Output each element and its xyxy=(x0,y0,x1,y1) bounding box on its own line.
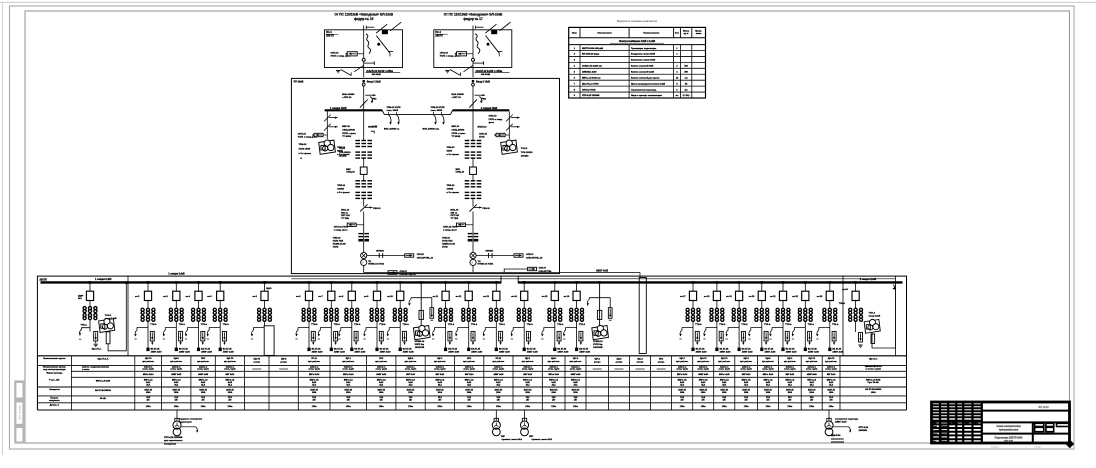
svg-text:ОПН-10: ОПН-10 xyxy=(440,52,449,54)
svg-text:НТМИ-10 УХЛ2: НТМИ-10 УХЛ2 xyxy=(368,264,384,266)
transformer ТСН-1 xyxy=(319,140,336,154)
svg-text:НТМИ-10 УХЛ2: НТМИ-10 УХЛ2 xyxy=(478,264,494,266)
svg-text:кВт: кВт xyxy=(723,400,726,402)
TSN-1 cell partition xyxy=(127,276,129,356)
svg-text:Докум.: Докум. xyxy=(941,426,948,428)
svg-text:ЩС-3: ЩС-3 xyxy=(573,358,579,360)
svg-text:100А: 100А xyxy=(744,391,749,394)
svg-text:100А: 100А xyxy=(174,391,179,394)
svg-text:яч.16: яч.16 xyxy=(564,296,570,298)
disconnect diagonal 2 xyxy=(469,99,477,107)
svg-text:яч.3: яч.3 xyxy=(163,296,168,298)
svg-text:5х16: 5х16 xyxy=(496,382,500,384)
svg-text:ТТИ-А: ТТИ-А xyxy=(448,323,455,326)
svg-text:УХЛ2 3ф: УХЛ2 3ф xyxy=(593,343,602,346)
svg-text:ЯУО: ЯУО xyxy=(659,359,664,361)
svg-text:Ввод-1 10кВ: Ввод-1 10кВ xyxy=(367,82,381,84)
svg-text:1000/5: 1000/5 xyxy=(337,188,344,190)
svg-text:яч.18: яч.18 xyxy=(704,296,710,298)
svg-text:Докум.: Докум. xyxy=(941,441,948,443)
data table grid xyxy=(37,355,906,357)
svg-text:5х16: 5х16 xyxy=(552,382,556,384)
svg-text:1 секция 0,4кВ: 1 секция 0,4кВ xyxy=(168,272,185,275)
svg-text:160А: 160А xyxy=(871,391,876,394)
svg-text:АВВГ 4х50: АВВГ 4х50 xyxy=(786,351,798,354)
svg-text:мощность: мощность xyxy=(49,400,60,402)
svg-text:100А: 100А xyxy=(573,391,578,394)
svg-text:ВА 57-35: ВА 57-35 xyxy=(527,347,537,350)
svg-text:лотке, трубе: лотке, трубе xyxy=(522,369,534,371)
svg-text:РВЗ-10: РВЗ-10 xyxy=(373,208,381,210)
svg-text:ВВУ: ВВУ xyxy=(346,169,351,171)
svg-text:щит раб.осв.: щит раб.осв. xyxy=(762,361,774,363)
svg-text:ЩАО: ЩАО xyxy=(551,357,556,360)
fuse block 2 xyxy=(491,30,497,34)
svg-text:ТТИ-А: ТТИ-А xyxy=(719,323,726,326)
frame corner diamond xyxy=(1065,440,1074,449)
svg-text:125м: 125м xyxy=(408,406,413,408)
svg-text:ЩР-2: ЩР-2 xyxy=(680,358,686,360)
svg-text:кабель ВВГнг-LS: кабель ВВГнг-LS xyxy=(865,365,882,368)
svg-text:5х16: 5х16 xyxy=(146,382,150,384)
svg-text:125м: 125м xyxy=(346,406,351,408)
feeder bay яч.20 xyxy=(761,281,764,284)
svg-text:ТН: ТН xyxy=(368,261,371,263)
svg-text:лотке, трубе: лотке, трубе xyxy=(375,369,387,371)
svg-text:100А: 100А xyxy=(379,391,384,394)
current transformers lower 1 xyxy=(355,180,360,182)
svg-text:ЩО-70-1-Х УХЛ4: ЩО-70-1-Х УХЛ4 xyxy=(582,82,599,85)
svg-text:40 кВт: 40 кВт xyxy=(100,397,106,400)
svg-text:щит раб.осв.: щит раб.осв. xyxy=(308,361,320,363)
svg-text:УХЛ2 100/5: УХЛ2 100/5 xyxy=(299,149,311,151)
svg-text:резерв: резерв xyxy=(658,361,665,363)
winding squiggle 2 xyxy=(475,34,480,54)
svg-text:кВт: кВт xyxy=(745,400,748,402)
bus jog at section break xyxy=(500,276,502,283)
svg-text:АВВГ 4х50: АВВГ 4х50 xyxy=(696,351,708,354)
LV busbar section 1 xyxy=(41,281,502,283)
svg-text:ВВУ-10: ВВУ-10 xyxy=(452,126,460,128)
svg-text:Наименование: Наименование xyxy=(643,33,660,35)
surge arrester ТСН-1 xyxy=(314,133,323,136)
svg-text:ВВГнг-LS 5х50: ВВГнг-LS 5х50 xyxy=(96,380,111,382)
svg-text:1 секция 10кВ: 1 секция 10кВ xyxy=(330,107,347,110)
auxiliary wire to sections xyxy=(364,272,640,274)
svg-text:яч.15: яч.15 xyxy=(542,296,548,298)
svg-text:ТСН-1: ТСН-1 xyxy=(105,315,112,317)
svg-text:Изм.: Изм. xyxy=(932,423,937,425)
svg-text:АВВГ 4х50: АВВГ 4х50 xyxy=(808,351,820,354)
feeder bay яч.18 xyxy=(716,281,719,284)
svg-text:резерв: резерв xyxy=(616,361,623,363)
branch fuse arrester 2 xyxy=(476,255,514,257)
svg-text:АВВГ 4х50: АВВГ 4х50 xyxy=(380,351,392,354)
svg-text:5х16: 5х16 xyxy=(201,382,205,384)
svg-text:ТТИ-А: ТТИ-А xyxy=(839,302,846,305)
svg-text:ВНА-10/630 зп: ВНА-10/630 зп xyxy=(384,127,400,130)
branch wire section 2 xyxy=(504,269,527,273)
svg-text:ВА 57-35: ВА 57-35 xyxy=(380,347,390,350)
svg-text:фазе: фазе xyxy=(489,121,495,124)
feeder line in cell 2 xyxy=(472,35,474,59)
svg-text:для переносного: для переносного xyxy=(164,440,183,442)
feeder bay яч.3 xyxy=(175,281,178,284)
current transformers upper 1 xyxy=(355,140,360,142)
svg-text:щит раб.осв.: щит раб.осв. xyxy=(676,361,688,363)
svg-text:Электроснабжение 10кВ и 0,4кВ: Электроснабжение 10кВ и 0,4кВ xyxy=(619,40,656,43)
surge arrester lower 1 xyxy=(347,223,356,226)
bay TSN-2 LV input xyxy=(854,281,857,284)
svg-text:2 / 28,1: 2 / 28,1 xyxy=(683,95,691,97)
svg-text:СЭЩ-20/630: СЭЩ-20/630 xyxy=(452,129,466,131)
svg-text:ТТИ-А: ТТИ-А xyxy=(379,323,386,326)
svg-text:5х16: 5х16 xyxy=(829,382,833,384)
svg-text:ВВГнг-LS 5х16 мм: ВВГнг-LS 5х16 мм xyxy=(582,77,601,79)
svg-text:лотке, трубе: лотке, трубе xyxy=(676,369,688,371)
svg-text:ВНА-10: ВНА-10 xyxy=(341,208,350,211)
svg-text:125м: 125м xyxy=(680,406,685,408)
svg-text:яч.23: яч.23 xyxy=(817,296,823,298)
svg-text:щит раб.осв.: щит раб.осв. xyxy=(825,361,837,363)
svg-text:5х16: 5х16 xyxy=(722,382,726,384)
svg-text:5х16: 5х16 xyxy=(680,382,684,384)
transformer ТСН-2 xyxy=(501,140,518,154)
svg-text:АВВГ 4х50: АВВГ 4х50 xyxy=(832,351,844,354)
svg-text:5х16: 5х16 xyxy=(346,382,350,384)
svg-text:ОПН-П: ОПН-П xyxy=(400,271,408,273)
svg-text:УХЛ2 75/5: УХЛ2 75/5 xyxy=(333,241,344,243)
svg-text:РВЗ: РВЗ xyxy=(482,99,487,101)
svg-text:1 секция 0,4кВ: 1 секция 0,4кВ xyxy=(95,278,112,281)
breaker diagonal 2 xyxy=(486,36,500,54)
svg-text:Потреб.: Потреб. xyxy=(50,396,58,399)
svg-text:ТТИ-А: ТТИ-А xyxy=(471,323,478,326)
svg-text:УХЛ2: УХЛ2 xyxy=(442,246,448,248)
svg-text:РВЗ-10: РВЗ-10 xyxy=(483,208,491,210)
svg-text:100А: 100А xyxy=(146,391,151,394)
svg-text:ВА 57-35: ВА 57-35 xyxy=(334,347,344,350)
svg-text:в 3-х фазах: в 3-х фазах xyxy=(337,153,350,156)
svg-text:яч.24: яч.24 xyxy=(842,288,848,291)
svg-text:5х16: 5х16 xyxy=(744,382,748,384)
svg-text:ВВГ 5х10: ВВГ 5х10 xyxy=(742,374,751,376)
svg-text:Докум.: Докум. xyxy=(941,430,948,432)
svg-text:кВт: кВт xyxy=(810,400,813,402)
svg-text:№ докум.: № докум. xyxy=(949,422,958,425)
svg-text:ВА 57-35-340010: ВА 57-35-340010 xyxy=(865,388,882,391)
svg-text:лотке, трубе: лотке, трубе xyxy=(405,369,417,371)
svg-text:ЩР-2: ЩР-2 xyxy=(595,359,601,361)
switch arrows ТСН-1 xyxy=(329,117,338,119)
svg-text:100А: 100А xyxy=(312,391,317,394)
svg-text:принципиальная: принципиальная xyxy=(999,430,1019,432)
svg-text:лотке, трубе: лотке, трубе xyxy=(170,369,182,371)
arrester branch VT bay 2 xyxy=(609,298,611,308)
svg-text:щит раб.осв.: щит раб.осв. xyxy=(548,361,560,363)
svg-text:НАМИ-10-95: НАМИ-10-95 xyxy=(442,242,456,245)
svg-text:шт: шт xyxy=(676,95,679,97)
fuse VT bay 2 xyxy=(597,310,601,319)
svg-text:Лист: Лист xyxy=(932,426,937,428)
disconnect lower 1 xyxy=(360,204,367,211)
svg-text:освещения: освещения xyxy=(164,443,177,445)
svg-text:НТМИ-10: НТМИ-10 xyxy=(593,341,603,343)
svg-text:Пров.: Пров. xyxy=(932,434,938,436)
voltage transformer bay 1 xyxy=(420,281,423,284)
svg-text:125м: 125м xyxy=(829,406,834,408)
feeder bay яч.11 xyxy=(444,281,447,284)
revision grid header band xyxy=(932,420,982,423)
left margin stamp bar xyxy=(14,380,25,443)
svg-text:ТТИ-А: ТТИ-А xyxy=(311,323,318,326)
feeder bay яч.19 xyxy=(738,281,741,284)
svg-text:ОПН-П: ОПН-П xyxy=(539,268,547,270)
svg-text:125м: 125м xyxy=(809,406,814,408)
svg-text:СЭЩ-10: СЭЩ-10 xyxy=(346,172,355,174)
svg-text:лотке, трубе: лотке, трубе xyxy=(197,369,209,371)
svg-text:100А: 100А xyxy=(809,391,814,394)
svg-text:100А: 100А xyxy=(680,391,685,394)
feeder bay яч.12 xyxy=(467,281,470,284)
svg-text:ОПН-10 УХЛ1: ОПН-10 УХЛ1 xyxy=(334,226,349,228)
svg-text:ТТИ-А: ТТИ-А xyxy=(695,323,702,326)
svg-text:АВВГ 4х35: АВВГ 4х35 xyxy=(198,373,208,376)
svg-text:кВт: кВт xyxy=(788,400,791,402)
svg-text:Руст 30 кВт: Руст 30 кВт xyxy=(868,382,879,384)
svg-text:яч.21: яч.21 xyxy=(770,296,776,298)
svg-text:ТТ 600/5: ТТ 600/5 xyxy=(452,136,462,138)
section 2 right edge xyxy=(894,276,896,356)
svg-text:щит раб.осв.: щит раб.осв. xyxy=(434,361,446,363)
svg-text:ВНА-10/630 зпр: ВНА-10/630 зпр xyxy=(423,127,440,130)
current transformers small 2 xyxy=(468,233,473,235)
svg-text:Аппараты: Аппараты xyxy=(49,388,60,391)
svg-text:лотке, трубе: лотке, трубе xyxy=(548,369,560,371)
svg-text:кВт: кВт xyxy=(497,400,500,402)
svg-text:кВт: кВт xyxy=(526,400,529,402)
svg-text:щит раб.осв.: щит раб.осв. xyxy=(570,361,582,363)
svg-text:в 3-х фазах: в 3-х фазах xyxy=(447,153,460,156)
svg-text:щит раб.осв.: щит раб.осв. xyxy=(142,361,154,363)
svg-text:ВВГ 5х10: ВВГ 5х10 xyxy=(406,374,415,376)
svg-text:5х16: 5х16 xyxy=(438,382,442,384)
svg-text:ЩО-70: ЩО-70 xyxy=(145,358,152,360)
svg-text:100/100В: 100/100В xyxy=(415,347,425,349)
svg-text:ВА 57-35: ВА 57-35 xyxy=(808,347,818,350)
svg-text:АВВГ 4х50: АВВГ 4х50 xyxy=(403,351,415,354)
svg-text:Ограничители перенапр.: Ограничители перенапр. xyxy=(631,89,657,91)
svg-text:лотке, трубе: лотке, трубе xyxy=(825,369,837,371)
feeder bay яч.2 xyxy=(147,281,150,284)
arrow feeder 2 xyxy=(475,94,486,96)
svg-text:ВА 57-35: ВА 57-35 xyxy=(151,347,161,350)
voltage transformer circles 1 xyxy=(361,252,367,258)
svg-text:АВБбШв 4х50: АВБбШв 4х50 xyxy=(582,71,597,74)
feeder bay яч.15 xyxy=(554,281,557,284)
svg-text:ТТИ-А: ТТИ-А xyxy=(403,323,410,326)
svg-text:ТТИ-А: ТТИ-А xyxy=(741,323,748,326)
svg-text:АВВГ 4х50: АВВГ 4х50 xyxy=(579,351,591,354)
svg-text:5х16: 5х16 xyxy=(788,382,792,384)
svg-text:лотке, трубе: лотке, трубе xyxy=(343,369,355,371)
svg-text:Копир.: Копир. xyxy=(1035,446,1042,448)
svg-text:100А: 100А xyxy=(788,391,793,394)
svg-text:ЯУО: ЯУО xyxy=(467,358,472,360)
branch fuse arrester 1 xyxy=(367,255,405,257)
feeder bay яч.4 xyxy=(197,281,200,284)
svg-text:кВт: кВт xyxy=(175,400,178,402)
incoming marker right xyxy=(893,285,895,290)
svg-text:ЩР-1: ЩР-1 xyxy=(437,358,443,360)
svg-text:Кабель силовой 10кВ: Кабель силовой 10кВ xyxy=(631,65,654,68)
svg-text:яч.20: яч.20 xyxy=(749,296,755,298)
svg-text:твкл. 300/5: твкл. 300/5 xyxy=(431,110,443,112)
svg-text:вид электропроводки: вид электропроводки xyxy=(43,369,66,371)
svg-text:ПР-11: ПР-11 xyxy=(311,358,317,360)
svg-text:щит раб.осв.: щит раб.осв. xyxy=(375,361,387,363)
feeder bay яч.7 xyxy=(330,281,333,284)
svg-text:АВВГ 4х50: АВВГ 4х50 xyxy=(698,373,708,376)
svg-text:ВА 57-35: ВА 57-35 xyxy=(223,347,233,350)
svg-text:ПКН001: ПКН001 xyxy=(486,251,495,253)
svg-text:ЯУО: ЯУО xyxy=(379,358,384,360)
svg-text:Длина, м: Длина, м xyxy=(50,405,60,407)
svg-text:ВВГ 5х10: ВВГ 5х10 xyxy=(465,374,474,376)
svg-text:АВВГ 4х50: АВВГ 4х50 xyxy=(807,373,817,376)
svg-text:ВА 57-35: ВА 57-35 xyxy=(720,347,730,350)
svg-text:100А: 100А xyxy=(346,391,351,394)
svg-text:ВВГ 5х10: ВВГ 5х10 xyxy=(827,374,836,376)
svg-text:ВА 57-35: ВА 57-35 xyxy=(832,347,842,350)
svg-text:ЩО-70: ЩО-70 xyxy=(808,358,815,360)
svg-text:125м: 125м xyxy=(379,406,384,408)
feeder bay яч.17 xyxy=(692,281,695,284)
svg-text:Марка провода: Марка провода xyxy=(47,372,64,374)
svg-text:ввод 0,4кВ: ввод 0,4кВ xyxy=(869,315,881,318)
svg-text:ТТИ-А: ТТИ-А xyxy=(354,323,361,326)
svg-text:ТТИ-А: ТТИ-А xyxy=(223,323,230,326)
svg-text:ЩУ-1: ЩУ-1 xyxy=(525,358,531,360)
feeder bay яч.10 xyxy=(399,281,402,284)
svg-text:ТТИ-А: ТТИ-А xyxy=(808,323,815,326)
title block lit/mass/scale xyxy=(1032,422,1034,443)
svg-text:ВВУ: ВВУ xyxy=(456,169,461,171)
svg-text:АВВГ 4х50: АВВГ 4х50 xyxy=(764,351,776,354)
svg-text:Трансформ. подстанция: Трансформ. подстанция xyxy=(631,47,657,50)
svg-text:Схема электрическая: Схема электрическая xyxy=(996,426,1021,428)
svg-text:100А: 100А xyxy=(408,391,413,394)
svg-text:кВт: кВт xyxy=(147,400,150,402)
svg-text:АВВГ 4х50: АВВГ 4х50 xyxy=(312,351,324,354)
svg-text:100А: 100А xyxy=(701,391,706,394)
title block right part xyxy=(982,410,1070,412)
svg-text:кВт: кВт xyxy=(438,400,441,402)
wall bushing dot 1 xyxy=(362,80,365,83)
svg-text:ед. кг: ед. кг xyxy=(684,33,689,35)
svg-text:ВВГнг 5х16: ВВГнг 5х16 xyxy=(548,374,558,376)
svg-text:Ящик с трансф. понижающим: Ящик с трансф. понижающим xyxy=(631,94,662,97)
current transformers small 1 xyxy=(358,233,363,235)
svg-text:освещение подъезда: освещение подъезда xyxy=(835,419,859,421)
bay with riser cubicle xyxy=(263,281,266,284)
svg-text:2 секция 10кВ: 2 секция 10кВ xyxy=(481,107,498,110)
svg-text:Кабель силовой для щитов: Кабель силовой для щитов xyxy=(631,76,660,79)
svg-text:Обозначение: Обозначение xyxy=(597,32,612,35)
svg-text:ТЛМ-10: ТЛМ-10 xyxy=(442,238,451,240)
svg-text:РВЗ: РВЗ xyxy=(372,99,377,101)
svg-text:АВВГ 4х50: АВВГ 4х50 xyxy=(499,351,511,354)
svg-text:прожект. мачта №1: прожект. мачта №1 xyxy=(502,438,523,441)
svg-text:ВА 57-35: ВА 57-35 xyxy=(471,347,481,350)
riser to board 2 xyxy=(472,266,474,273)
svg-text:ОПН-П: ОПН-П xyxy=(526,254,534,256)
svg-text:100А: 100А xyxy=(228,391,233,394)
svg-text:в кажд. фазе: в кажд. фазе xyxy=(334,228,349,231)
drop to ТСН-1 xyxy=(326,111,328,139)
svg-text:лотке, трубе: лотке, трубе xyxy=(224,369,236,371)
svg-text:125м: 125м xyxy=(701,406,706,408)
svg-text:ЩМ-IP54: ЩМ-IP54 xyxy=(831,434,841,437)
svg-text:ТЛМ-10: ТЛМ-10 xyxy=(337,147,346,149)
svg-text:ЩАО: ЩАО xyxy=(174,357,179,360)
svg-text:ВА 57-35: ВА 57-35 xyxy=(448,347,458,350)
svg-text:ВВГ 5х10: ВВГ 5х10 xyxy=(436,374,445,376)
svg-text:ТТИ-А: ТТИ-А xyxy=(201,323,208,326)
legend section row xyxy=(569,44,706,46)
svg-text:ВА 57-35-340010: ВА 57-35-340010 xyxy=(95,389,112,392)
svg-text:100А: 100А xyxy=(467,391,472,394)
svg-text:100А: 100А xyxy=(722,391,727,394)
bracket VT bay 1 xyxy=(411,297,432,299)
LV busbar section 2 xyxy=(518,281,902,283)
svg-text:ВВГнг 4х25: ВВГнг 4х25 xyxy=(719,373,729,376)
title block xyxy=(932,402,1070,443)
arrester on auxiliary wire xyxy=(388,271,397,275)
svg-text:Ведомость основных комплектов: Ведомость основных комплектов xyxy=(617,19,658,23)
svg-text:в кажд. фазе: в кажд. фазе xyxy=(443,228,458,231)
svg-text:ТТИ-А: ТТИ-А xyxy=(764,323,771,326)
svg-text:АВВГ 4х50: АВВГ 4х50 xyxy=(448,351,460,354)
svg-text:ВНАП-10: ВНАП-10 xyxy=(478,126,488,129)
svg-text:100А: 100А xyxy=(201,391,206,394)
svg-text:ВВГнг-LS 5х35: ВВГнг-LS 5х35 xyxy=(866,379,881,381)
svg-text:лотке, трубе: лотке, трубе xyxy=(697,369,709,371)
VT machine 1 xyxy=(413,325,430,339)
switchboard enclosure xyxy=(37,276,906,356)
svg-text:исполнения: исполнения xyxy=(831,442,845,444)
svg-text:щит раб.осв.: щит раб.осв. xyxy=(522,361,534,363)
outdoor lighting transformer 4 xyxy=(828,410,830,421)
svg-text:АВВГ 4х35: АВВГ 4х35 xyxy=(596,270,609,273)
svg-text:ТЛМ-10: ТЛМ-10 xyxy=(337,185,346,187)
feeder bay яч.14 xyxy=(523,281,526,284)
svg-text:Ввод-2 10кВ: Ввод-2 10кВ xyxy=(476,82,490,84)
disconnect lower 2 xyxy=(469,204,476,211)
svg-text:ВА 57-35: ВА 57-35 xyxy=(499,347,509,350)
svg-text:От ПС 110/10кВ «Заводская» ВЛ-: От ПС 110/10кВ «Заводская» ВЛ-10кВ xyxy=(444,12,503,16)
svg-text:ВА 57-35: ВА 57-35 xyxy=(312,347,322,350)
svg-text:125м: 125м xyxy=(722,406,727,408)
svg-text:5х16: 5х16 xyxy=(228,382,232,384)
svg-text:ЯТП-0,25: ЯТП-0,25 xyxy=(859,427,869,429)
svg-text:ВВГ 5х10: ВВГ 5х10 xyxy=(523,374,532,376)
transformer cell box T2 xyxy=(434,30,512,68)
svg-text:ТТИ-А: ТТИ-А xyxy=(579,323,586,326)
svg-text:ОПН-10 УХЛ1: ОПН-10 УХЛ1 xyxy=(582,89,596,91)
svg-text:ТЛМ-10: ТЛМ-10 xyxy=(447,185,456,187)
svg-text:ЩАО: ЩАО xyxy=(616,358,621,361)
